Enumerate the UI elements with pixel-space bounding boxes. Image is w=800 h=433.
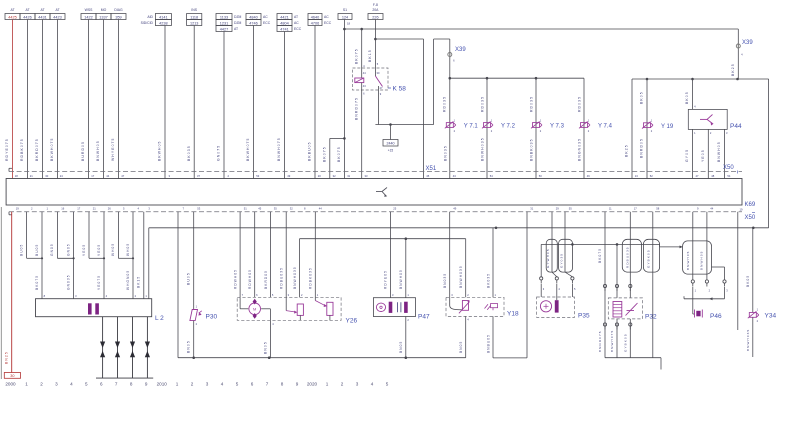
svg-text:YE075: YE075: [97, 275, 101, 290]
svg-text:4804: 4804: [280, 21, 288, 25]
wire screen bus y244: [541, 243, 659, 277]
connector X51 dashed line: [9, 168, 742, 171]
terminal stack INS: boxes 1118 1213: [187, 8, 202, 26]
svg-text:BK15: BK15: [137, 276, 141, 288]
svg-text:4423: 4423: [53, 15, 61, 19]
solenoid valve Y 7.1: [445, 119, 479, 133]
svg-text:AT: AT: [40, 8, 44, 12]
wire X39 to Y7 valves RD035: [442, 39, 449, 179]
svg-text:X39: X39: [455, 47, 466, 53]
label P47: [418, 314, 430, 321]
svg-text:3: 3: [55, 382, 58, 387]
svg-text:Y26: Y26: [346, 318, 358, 325]
svg-text:BK075: BK075: [322, 146, 326, 162]
svg-text:2440: 2440: [387, 142, 395, 146]
svg-text:4238: 4238: [159, 21, 167, 25]
wire Y19 P44 supply bus: [632, 78, 738, 81]
wire to L2 WHGN05: [126, 258, 133, 298]
svg-text:4706: 4706: [311, 21, 319, 25]
node junction bus right: [736, 78, 739, 81]
svg-text:26: 26: [108, 207, 111, 211]
solenoid valve Y 7.2: [482, 119, 516, 133]
spark plug common line: [96, 377, 153, 379]
svg-text:GN035: GN035: [66, 274, 70, 290]
svg-text:BU05: BU05: [19, 244, 23, 256]
wire sensor supply link y238.7: [300, 237, 466, 240]
svg-text:BNWH05: BNWH05: [96, 140, 100, 161]
svg-text:37: 37: [197, 174, 200, 178]
svg-text:1231: 1231: [220, 21, 228, 25]
svg-text:4741: 4741: [280, 27, 288, 31]
svg-text:BNRD05: BNRD05: [640, 138, 644, 158]
node junction K58 coil feed: [360, 28, 363, 31]
wire rail drop to ignition coil L2: [148, 228, 150, 299]
svg-text:ECC: ECC: [263, 21, 271, 25]
svg-text:4: 4: [221, 382, 224, 387]
svg-text:124: 124: [342, 15, 348, 19]
svg-text:+15: +15: [388, 149, 394, 153]
wire screen drop to P32: [615, 244, 618, 298]
svg-text:54: 54: [490, 174, 493, 178]
svg-text:4427: 4427: [220, 27, 228, 31]
svg-text:BN05: BN05: [263, 341, 267, 354]
svg-text:29: 29: [556, 207, 559, 211]
svg-text:WHGN05: WHGN05: [126, 270, 130, 290]
svg-text:1118: 1118: [190, 15, 198, 19]
svg-text:BN05: BN05: [399, 341, 403, 353]
wire P47 ground BN05: [399, 317, 409, 358]
wire P32 BK075: [598, 212, 606, 358]
svg-text:WH05: WH05: [111, 243, 115, 256]
svg-text:X50: X50: [723, 165, 734, 171]
node junction to reference 2440: [389, 123, 392, 126]
wire L2 feed YE05 x=89: [82, 212, 89, 258]
wire BNGN035 below Y 7.4: [578, 138, 582, 161]
svg-text:2010: 2010: [157, 382, 168, 387]
svg-text:52: 52: [650, 174, 653, 178]
svg-text:51: 51: [244, 207, 247, 211]
svg-text:GY035: GY035: [559, 253, 563, 268]
wire bridges pairing coil feeds: [27, 257, 134, 259]
wire BNWH05 x=103.5: [96, 20, 103, 179]
svg-text:BN25: BN25: [5, 351, 9, 364]
svg-text:P44: P44: [730, 123, 742, 130]
svg-text:RDYE05: RDYE05: [384, 270, 388, 289]
svg-text:AID: AID: [147, 15, 153, 19]
wire Y26 ground BN05: [263, 320, 274, 357]
terminal stack AC/ECC: boxes 4640 4706: [308, 14, 332, 26]
svg-text:Y 19: Y 19: [661, 124, 674, 130]
svg-text:BKBU05: BKBU05: [308, 141, 312, 161]
wire Y34 ground BNWH035: [746, 317, 753, 357]
wire BNRD05 below Y19: [640, 138, 644, 158]
wire P30 feed BU05: [187, 212, 194, 310]
svg-text:BK25: BK25: [625, 144, 629, 157]
pressure sensor P44: [688, 109, 742, 130]
svg-text:WSS: WSS: [85, 8, 93, 12]
spark plug wire 4: [145, 317, 150, 378]
svg-text:44: 44: [710, 207, 713, 211]
wire BN035 below Y 7.1: [443, 145, 447, 161]
L2 pin numbers: [44, 294, 148, 298]
svg-text:Y34: Y34: [765, 313, 777, 320]
potentiometer 1 in Y26: [286, 297, 303, 320]
wire BK25 to X51 pin 13: [625, 79, 632, 179]
wire branch to X51 pin 32: [322, 138, 344, 178]
label X50 lower right: [740, 208, 756, 222]
svg-text:RD035: RD035: [442, 96, 446, 112]
coordinate ruler: [5, 382, 388, 387]
wire K58 contact output: [378, 90, 380, 125]
svg-text:25: 25: [393, 207, 396, 211]
svg-text:5: 5: [386, 382, 389, 387]
wire to L2 BK075: [35, 258, 42, 298]
temperature sensor P30: [190, 304, 202, 326]
wire P44 pin1 GY05: [685, 129, 696, 178]
potentiometer 2 in Y26: [315, 297, 333, 320]
wire battery BN25 red: [5, 212, 12, 373]
wire BKWH075 x=57.5: [50, 20, 57, 179]
wire BK25 label right: [731, 63, 735, 76]
idle actuator Y26 box: [237, 297, 341, 320]
svg-text:BK075: BK075: [35, 275, 39, 290]
svg-text:BNWH035: BNWH035: [459, 265, 463, 288]
connector sockets P35: [540, 272, 576, 291]
svg-text:P46: P46: [710, 313, 722, 320]
svg-text:BURD05: BURD05: [81, 141, 85, 161]
injector valve symbol in Y18: [450, 297, 498, 313]
svg-text:BKWH05: BKWH05: [158, 140, 162, 161]
svg-text:BK075: BK075: [337, 146, 341, 162]
wire P32 return GYBK05: [624, 319, 632, 358]
label Y26: [346, 318, 358, 325]
solenoid valve Y34: [748, 307, 759, 323]
svg-text:BNWH075: BNWH075: [277, 137, 281, 161]
relay K58: [353, 62, 389, 96]
wire Y18 link BNWH035: [459, 239, 466, 298]
svg-text:16: 16: [61, 207, 64, 211]
svg-text:AT: AT: [294, 15, 298, 19]
wire WHYE075 x=118.5: [111, 20, 118, 179]
svg-text:1337: 1337: [99, 15, 107, 19]
svg-text:ECC: ECC: [324, 21, 332, 25]
terminal stack AID / SID-CID: boxes 4141 4238: [141, 14, 172, 26]
svg-text:6: 6: [251, 382, 254, 387]
wire Y18 supply BK035: [486, 228, 493, 297]
label P46: [710, 313, 722, 320]
svg-text:19: 19: [740, 208, 743, 212]
svg-text:F-8: F-8: [373, 3, 378, 7]
wire Y 7.4 branch: [578, 78, 584, 178]
label Y34: [765, 313, 777, 320]
wire BKWH075 x=253.5: [246, 26, 253, 179]
svg-text:GYBK05: GYBK05: [647, 249, 651, 268]
svg-text:4141: 4141: [159, 15, 167, 19]
svg-text:BU05: BU05: [187, 272, 191, 285]
wire screen link to P46: [660, 244, 683, 248]
svg-text:3: 3: [206, 382, 209, 387]
wire P46 screen tap: [712, 267, 727, 287]
label L2: [155, 315, 164, 322]
svg-text:35: 35: [274, 207, 277, 211]
svg-text:BK25: BK25: [731, 63, 735, 76]
svg-text:K69: K69: [745, 202, 756, 208]
motor M in Y26: [240, 297, 270, 320]
svg-text:21: 21: [30, 174, 33, 178]
svg-text:17: 17: [77, 207, 80, 211]
svg-text:P35: P35: [578, 313, 590, 320]
svg-text:Y 7.2: Y 7.2: [501, 124, 516, 130]
svg-text:WHYE075: WHYE075: [111, 137, 115, 161]
svg-text:18: 18: [15, 174, 18, 178]
svg-text:GN05: GN05: [50, 243, 54, 256]
ignition coil L2: [36, 299, 152, 317]
svg-text:11: 11: [609, 207, 612, 211]
svg-text:55: 55: [569, 207, 572, 211]
svg-text:P30: P30: [206, 314, 218, 321]
wire BNWH075 x=284.5: [277, 32, 284, 179]
wire Y18 ground BN05: [459, 316, 469, 357]
wire P35 GY035 screened: [564, 212, 566, 272]
svg-text:BNWH035: BNWH035: [293, 266, 297, 289]
wire P44 pin3 BNWH05: [717, 129, 728, 178]
svg-text:X39: X39: [742, 40, 753, 46]
svg-text:5: 5: [85, 382, 88, 387]
terminal stack AT/AC/ECC: boxes 4421 4804 4741: [277, 14, 302, 32]
lambda heater P47 box: [373, 298, 415, 317]
wire supply right edge: [738, 79, 769, 228]
wire K58 coil to X51 pin 33 BNRD075: [354, 90, 361, 179]
svg-text:INS: INS: [191, 8, 197, 12]
svg-text:1: 1: [176, 382, 179, 387]
svg-text:53: 53: [197, 207, 200, 211]
screen tube P32 right: [643, 239, 659, 272]
svg-text:BKRD075: BKRD075: [35, 138, 39, 161]
svg-text:BN035: BN035: [443, 145, 447, 161]
svg-text:GN075: GN075: [217, 145, 221, 161]
svg-text:2: 2: [40, 382, 43, 387]
wire Y 7.2 branch: [481, 78, 487, 178]
knock sensor P32 box: [608, 298, 642, 319]
terminal 30 box: [4, 373, 20, 379]
svg-text:DZM: DZM: [234, 15, 242, 19]
X50 pin numbers: [16, 207, 714, 211]
svg-text:49: 49: [453, 207, 456, 211]
wire BNBK035 below Y 7.3: [530, 138, 534, 161]
svg-text:X51: X51: [426, 166, 437, 172]
svg-text:226: 226: [372, 15, 378, 19]
svg-text:RD035: RD035: [481, 96, 485, 112]
node junction on S1 wire: [343, 137, 346, 140]
svg-text:4431: 4431: [38, 15, 46, 19]
svg-text:58: 58: [656, 207, 659, 211]
label P32: [645, 314, 657, 321]
svg-text:BNWH075: BNWH075: [610, 330, 614, 352]
svg-text:5: 5: [236, 382, 239, 387]
wire Y7 supply bus: [450, 77, 584, 80]
wire S1 124 to X51 pin 31: [337, 20, 344, 179]
svg-text:RD035: RD035: [530, 96, 534, 112]
P46 pin numbers: [695, 289, 729, 293]
terminal group AT: boxes 4425 4426 4431 4423: [5, 8, 65, 20]
svg-text:RDBU035: RDBU035: [280, 267, 284, 289]
connector X50 dashed line: [9, 212, 742, 215]
wire P46 signal 1: [691, 212, 694, 287]
svg-text:YE05: YE05: [82, 244, 86, 256]
spark plug wire 3: [130, 317, 135, 378]
svg-text:20: 20: [318, 174, 321, 178]
svg-text:Y 7.3: Y 7.3: [550, 124, 565, 130]
wire L2 feed BU05 x=26.6: [19, 212, 26, 258]
svg-text:MO: MO: [101, 8, 107, 12]
svg-text:BK035: BK035: [486, 273, 490, 288]
svg-text:47: 47: [121, 174, 124, 178]
svg-text:RDYE075: RDYE075: [5, 138, 9, 161]
wire BK035 x=194.2: [187, 26, 194, 179]
svg-text:AT: AT: [234, 27, 238, 31]
terminal stack AC/ECC: boxes 4840 4746: [246, 14, 271, 26]
wire Y26 RDWH05 x=254.7: [248, 212, 255, 297]
wire BKBU05 x=315: [308, 26, 315, 179]
svg-text:WH05: WH05: [126, 243, 130, 256]
svg-text:RDWH05: RDWH05: [234, 269, 238, 289]
svg-text:45: 45: [258, 207, 261, 211]
wire Y34 feed BK05: [746, 228, 753, 313]
label K58: [388, 86, 406, 93]
wire BKRD075 x=42.5: [35, 20, 42, 179]
svg-text:43: 43: [453, 174, 456, 178]
svg-text:L 2: L 2: [155, 315, 164, 322]
Y26 pin numbers: [242, 293, 319, 297]
reference box 2440 +15: [383, 125, 398, 153]
svg-text:BNWH05: BNWH05: [399, 269, 403, 289]
wire L2 feed WH05 x=118.4: [111, 212, 118, 258]
svg-text:7: 7: [115, 382, 118, 387]
wire L2 feed YE05 x=104: [97, 212, 104, 258]
svg-text:BNWH05: BNWH05: [717, 141, 721, 162]
wire Y26 BNWH035 x=299.5: [293, 239, 300, 298]
label Y18: [507, 311, 519, 318]
svg-text:BU05: BU05: [35, 244, 39, 256]
svg-text:P47: P47: [418, 314, 430, 321]
wire RDYE075 x=12.5: [5, 20, 12, 179]
svg-text:BNWH05: BNWH05: [700, 251, 704, 271]
svg-text:4425: 4425: [8, 15, 16, 19]
svg-text:4: 4: [371, 382, 374, 387]
wire Y18 return loop BNBU05: [486, 212, 527, 358]
spark plug wire 2: [115, 317, 120, 378]
svg-text:YE05: YE05: [701, 149, 705, 162]
wire Y26 RDBU035 x=286.2: [280, 212, 287, 297]
svg-text:BK075: BK075: [354, 48, 358, 64]
svg-text:2000: 2000: [5, 382, 16, 387]
wire switched-plus frame bottom: [375, 124, 433, 126]
svg-text:9: 9: [145, 382, 148, 387]
label P30: [206, 314, 218, 321]
svg-text:BN05: BN05: [187, 340, 191, 353]
wire ground bus bottom: [178, 356, 466, 359]
svg-text:4746: 4746: [249, 21, 257, 25]
wire BNWH035 below Y 7.2: [481, 137, 485, 161]
wire P46 signal 2: [705, 212, 708, 287]
svg-text:BNRD075: BNRD075: [598, 330, 602, 352]
wire battery feed down from top rail: [737, 29, 739, 79]
wire fuse 226 to K58 contact BK15: [368, 20, 375, 67]
fuse S1: box 124: [338, 8, 352, 26]
svg-text:53: 53: [256, 174, 259, 178]
svg-text:1: 1: [25, 382, 28, 387]
svg-text:DIAG: DIAG: [114, 8, 123, 12]
wire GYBK05 ground: [652, 212, 654, 358]
svg-text:AT: AT: [55, 8, 59, 12]
label X50 upper right: [723, 165, 738, 174]
wire Y18 signal BN035: [443, 212, 450, 297]
wire L2 feed GN05 x=73.6: [66, 212, 73, 258]
wire RDBK075 x=27.5: [20, 20, 27, 179]
svg-text:Y 7.4: Y 7.4: [598, 124, 613, 130]
svg-text:45: 45: [426, 174, 429, 178]
terminal group WSS MO DIAG: boxes 1422 1337 359: [81, 8, 126, 20]
svg-text:P32: P32: [645, 314, 657, 321]
wire P30 ground BN05: [187, 321, 194, 358]
node junction Y7 bus: [449, 77, 452, 80]
wire P32 return BNWH075: [610, 319, 618, 358]
wire P47 BNWH05: [399, 239, 409, 298]
svg-text:8: 8: [281, 382, 284, 387]
svg-text:17: 17: [634, 207, 637, 211]
svg-text:3: 3: [356, 382, 359, 387]
connector X39 left: [448, 47, 467, 63]
svg-text:BNWH035: BNWH035: [481, 137, 485, 161]
wire L2 feed GN05 x=57.4: [50, 212, 57, 258]
wire Y26 RDBK035 x=315.3: [309, 212, 316, 297]
wire to L2 YE075: [97, 258, 104, 298]
wire Y26 BKRD05 x=270.4: [264, 212, 271, 297]
svg-text:X50: X50: [745, 215, 756, 221]
solenoid valve Y 7.3: [531, 119, 565, 133]
fuse F-8 20A: box 226: [368, 3, 383, 20]
svg-text:44: 44: [319, 207, 322, 211]
wire ground link right: [605, 358, 661, 370]
svg-text:44: 44: [106, 174, 109, 178]
svg-text:21: 21: [93, 207, 96, 211]
wire switched-plus frame right to X51 pin 45: [423, 39, 425, 179]
svg-text:1: 1: [326, 382, 329, 387]
svg-text:2: 2: [191, 382, 194, 387]
solenoid valve Y19: [642, 119, 674, 133]
svg-text:24: 24: [60, 174, 63, 178]
wire P44 feed BK05: [685, 79, 696, 109]
wire BK15 to L2: [137, 212, 144, 299]
svg-text:M: M: [253, 306, 256, 311]
svg-text:19: 19: [16, 207, 19, 211]
svg-text:RDWH05: RDWH05: [248, 269, 252, 289]
screen tube P35 left: [546, 239, 557, 272]
svg-text:30: 30: [45, 174, 48, 178]
svg-text:RD035: RD035: [578, 96, 582, 112]
solenoid valve Y 7.4: [579, 119, 613, 133]
wire top feed rail y29: [344, 28, 738, 30]
svg-text:31: 31: [530, 207, 533, 211]
svg-text:YE05: YE05: [97, 244, 101, 256]
svg-text:DZM: DZM: [234, 21, 242, 25]
wire GN075 x=224: [217, 32, 224, 179]
svg-text:1133: 1133: [220, 15, 228, 19]
svg-text:BKRD05: BKRD05: [264, 270, 268, 289]
svg-text:RDBU035: RDBU035: [626, 246, 630, 268]
svg-text:49: 49: [287, 174, 290, 178]
svg-text:30: 30: [10, 374, 14, 378]
